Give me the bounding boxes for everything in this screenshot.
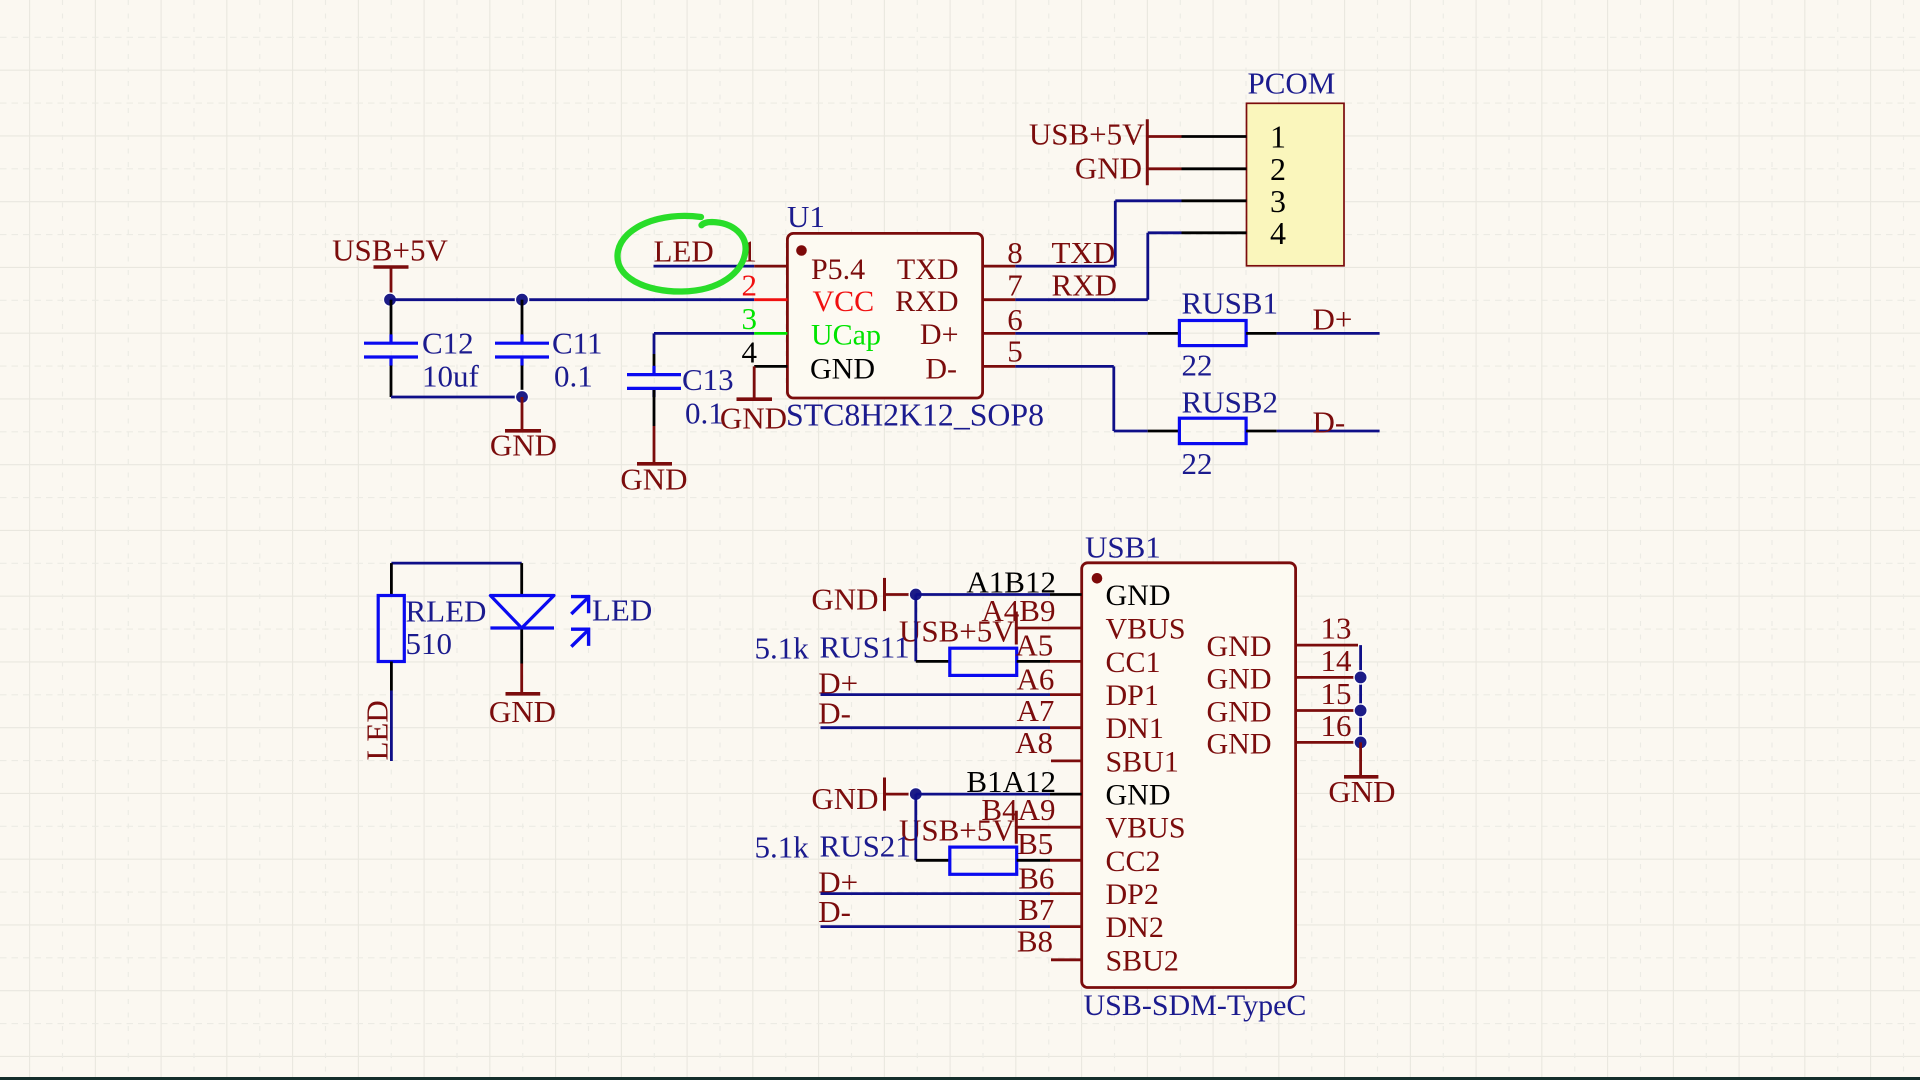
svg-text:7: 7 xyxy=(1007,267,1023,302)
pin A8 xyxy=(1015,725,1082,761)
U1 pin 2 xyxy=(742,267,788,302)
value 5.1k (RUS21) xyxy=(755,829,810,864)
pin B7 xyxy=(1018,892,1054,927)
svg-text:RUSB2: RUSB2 xyxy=(1182,385,1278,420)
svg-text:TXD: TXD xyxy=(897,253,959,286)
wire junction to RUS11 xyxy=(916,595,950,662)
junction below C11 xyxy=(515,390,528,403)
ground GND below pin 16 xyxy=(1328,742,1395,808)
power port GND (B group) xyxy=(811,778,915,816)
net label D+ (B group) xyxy=(818,865,858,900)
junction GND B group xyxy=(909,788,922,801)
svg-text:B8: B8 xyxy=(1017,924,1053,959)
svg-text:CC1: CC1 xyxy=(1106,646,1161,679)
U1 pin 5 xyxy=(983,334,1023,369)
wire VCC rail xyxy=(390,298,754,301)
net label RXD xyxy=(1052,267,1117,302)
junction VCC rail at C11 xyxy=(515,293,528,306)
svg-text:14: 14 xyxy=(1321,643,1353,678)
wire pins 13-16 bus xyxy=(1359,645,1362,742)
svg-text:D-: D- xyxy=(818,695,851,730)
svg-text:3: 3 xyxy=(1270,183,1286,219)
U1 pin 1 xyxy=(742,234,788,269)
pin name SBU2 (USB1 row 12) xyxy=(1106,944,1179,977)
value 10uf xyxy=(422,359,480,394)
svg-text:CC2: CC2 xyxy=(1106,845,1161,878)
svg-text:P5.4: P5.4 xyxy=(811,253,865,286)
svg-text:USB+5V: USB+5V xyxy=(332,233,448,268)
net label D- (B group) xyxy=(818,894,851,929)
svg-text:13: 13 xyxy=(1321,611,1352,646)
pin name VCC xyxy=(813,285,875,318)
svg-text:A6: A6 xyxy=(1017,661,1055,696)
power port GND (A group) xyxy=(811,578,915,616)
junction GND A group xyxy=(909,588,922,601)
ground GND below C11 xyxy=(490,397,557,463)
svg-text:RLED: RLED xyxy=(406,594,487,629)
resistor RUS11 xyxy=(950,648,1017,675)
wire RUS11 to pin A5 xyxy=(1017,660,1082,663)
U1 pin 8 xyxy=(983,235,1023,270)
wire junction to RUS21 xyxy=(916,794,950,860)
pin B1A12 xyxy=(966,764,1056,799)
svg-text:VCC: VCC xyxy=(813,285,875,318)
svg-text:LED: LED xyxy=(592,593,652,628)
svg-text:DP1: DP1 xyxy=(1106,679,1159,712)
svg-text:RUS21: RUS21 xyxy=(820,828,911,863)
USB1 pin 15 xyxy=(1296,676,1358,711)
pin name P5.4 xyxy=(811,253,865,286)
wire D+ to pin A6 xyxy=(821,693,1082,696)
svg-text:RXD: RXD xyxy=(895,285,958,318)
pin name TXD xyxy=(897,253,959,286)
wire GND to A1B12 pin xyxy=(916,593,1082,596)
svg-text:DP2: DP2 xyxy=(1106,878,1159,911)
svg-text:TXD: TXD xyxy=(1052,235,1116,270)
pin A4B9 wire xyxy=(981,593,1081,628)
power port USB+5V (B group) xyxy=(899,811,1016,848)
svg-text:LED: LED xyxy=(360,700,395,760)
U1 pin 6 xyxy=(983,302,1023,337)
svg-text:A5: A5 xyxy=(1015,627,1053,662)
resistor RUS21 xyxy=(950,847,1017,874)
svg-text:B5: B5 xyxy=(1017,826,1053,861)
pin name GND (right 14) xyxy=(1207,662,1272,695)
svg-text:D-: D- xyxy=(925,352,957,385)
svg-text:VBUS: VBUS xyxy=(1106,812,1186,845)
svg-text:D+: D+ xyxy=(920,318,959,351)
wire LED net to U1 pin 1 xyxy=(654,265,755,268)
wire RXD net xyxy=(1015,233,1181,300)
junction pin 15 xyxy=(1354,704,1367,717)
net label D+ (A group) xyxy=(818,666,858,701)
annotation green circle around LED xyxy=(617,216,745,292)
U1 pin 4 xyxy=(742,334,788,369)
svg-text:GND: GND xyxy=(1207,696,1272,729)
value 0.1 (C11) xyxy=(554,359,593,394)
svg-text:GND: GND xyxy=(1207,662,1272,695)
svg-text:USB-SDM-TypeC: USB-SDM-TypeC xyxy=(1084,989,1307,1022)
pin A7 xyxy=(1017,693,1055,728)
svg-text:GND: GND xyxy=(620,462,687,497)
pin B5 xyxy=(1017,826,1053,861)
junction VCC rail at C12 xyxy=(383,293,396,306)
wire RLED bottom (LED net) xyxy=(390,662,393,762)
U1 pin-1 mark xyxy=(796,245,807,256)
PCOM pin 2 xyxy=(1182,151,1287,187)
svg-text:DN1: DN1 xyxy=(1106,712,1164,745)
wire RLED top to LED anode xyxy=(391,563,521,594)
pin A1B12 xyxy=(966,565,1056,600)
PCOM pin 4 xyxy=(1182,215,1287,251)
svg-text:5.1k: 5.1k xyxy=(755,829,810,864)
pin name GND (USB1 row 7) xyxy=(1106,779,1171,812)
net label TXD xyxy=(1052,235,1116,270)
power port USB+5V (top left) xyxy=(332,233,448,300)
label RUSB1 xyxy=(1182,285,1278,320)
svg-text:DN2: DN2 xyxy=(1106,911,1164,944)
value 5.1k (RUS11) xyxy=(755,631,810,666)
wire C12 to C11 bottom xyxy=(391,396,522,399)
pin name DN1 (USB1 row 5) xyxy=(1106,712,1164,745)
svg-text:GND: GND xyxy=(1106,579,1171,612)
svg-text:GND: GND xyxy=(811,581,878,616)
pin A6 xyxy=(1017,661,1055,696)
wire GND to B1A12 pin xyxy=(916,793,1082,796)
svg-text:8: 8 xyxy=(1007,235,1023,270)
svg-text:15: 15 xyxy=(1321,676,1352,711)
svg-text:B6: B6 xyxy=(1018,860,1054,895)
pin name GND (right 16) xyxy=(1207,727,1272,760)
svg-text:GND: GND xyxy=(1106,779,1171,812)
USB1 pin 16 xyxy=(1296,708,1358,743)
pin B4A9 wire xyxy=(981,792,1081,827)
svg-text:D-: D- xyxy=(818,894,851,929)
svg-text:RUSB1: RUSB1 xyxy=(1182,285,1278,320)
pin name CC2 (USB1 row 9) xyxy=(1106,845,1161,878)
svg-text:GND: GND xyxy=(1207,727,1272,760)
resistor RLED xyxy=(378,596,404,662)
USB1 pin 14 xyxy=(1296,643,1358,678)
label C11 xyxy=(552,326,603,361)
wire RUSB2 to D- xyxy=(1246,430,1380,433)
svg-text:D-: D- xyxy=(1313,405,1346,440)
op-amp U1 body (STC8H2K12 SOP8) xyxy=(787,233,982,398)
PCOM pin 3 xyxy=(1182,183,1287,219)
label RLED xyxy=(406,594,487,629)
wire U1 pin 6 to RUSB1 xyxy=(1015,332,1179,335)
svg-text:D+: D+ xyxy=(1313,302,1353,337)
value 510 xyxy=(406,626,453,661)
pin name DN2 (USB1 row 11) xyxy=(1106,911,1164,944)
label LED (designator) xyxy=(592,593,652,628)
label C12 xyxy=(422,326,474,361)
svg-text:10uf: 10uf xyxy=(422,359,480,394)
svg-text:510: 510 xyxy=(406,626,453,661)
svg-text:B4A9: B4A9 xyxy=(981,792,1055,827)
wire UCap net (U1 pin 3 to C13) xyxy=(654,333,754,372)
svg-text:A4B9: A4B9 xyxy=(981,593,1055,628)
pin name GND (right 13) xyxy=(1207,630,1272,663)
resistor RUSB1 xyxy=(1179,321,1246,346)
svg-text:GND: GND xyxy=(490,428,557,463)
junction pin 14 xyxy=(1354,671,1367,684)
capacitor C11 xyxy=(495,300,549,397)
USB1 pin 13 xyxy=(1296,611,1358,646)
pin name DP2 (USB1 row 10) xyxy=(1106,878,1159,911)
svg-text:USB1: USB1 xyxy=(1085,530,1161,565)
svg-text:VBUS: VBUS xyxy=(1106,613,1186,646)
svg-text:GND: GND xyxy=(811,781,878,816)
wire D- to pin B7 xyxy=(821,925,1082,928)
value STC8H2K12_SOP8 xyxy=(786,398,1044,433)
label RUS11 xyxy=(820,630,910,665)
pin name VBUS (USB1 row 8) xyxy=(1106,812,1186,845)
svg-text:2: 2 xyxy=(1270,151,1286,187)
wire D+ to pin B6 xyxy=(821,892,1082,895)
pin name CC1 (USB1 row 3) xyxy=(1106,646,1161,679)
value USB-SDM-TypeC xyxy=(1084,989,1307,1022)
ground GND below C13 xyxy=(620,426,687,497)
U1 pin 3 xyxy=(742,301,788,336)
wire RUSB1 to D+ xyxy=(1246,332,1380,335)
svg-text:U1: U1 xyxy=(787,199,825,234)
power port GND (PCOM pin 2) xyxy=(1075,150,1182,185)
pin name GND (USB1 row 1) xyxy=(1106,579,1171,612)
svg-text:RUS11: RUS11 xyxy=(820,630,910,665)
capacitor C13 xyxy=(627,366,681,397)
value 22 (RUSB1) xyxy=(1182,348,1213,383)
svg-text:2: 2 xyxy=(742,267,758,302)
wire TXD net xyxy=(1015,201,1181,266)
svg-text:5: 5 xyxy=(1007,334,1023,369)
pin A5 xyxy=(1015,627,1053,662)
svg-text:C11: C11 xyxy=(552,326,603,361)
label C13 xyxy=(682,362,734,397)
svg-text:16: 16 xyxy=(1321,708,1352,743)
net label LED (vertical) xyxy=(360,700,395,760)
pin B6 xyxy=(1018,860,1054,895)
USB1 pin-1 mark xyxy=(1092,573,1103,584)
window bottom edge bar xyxy=(0,1077,1920,1080)
pin name VBUS (USB1 row 2) xyxy=(1106,613,1186,646)
value 0.1 (C13) xyxy=(685,396,724,431)
svg-text:0.1: 0.1 xyxy=(554,359,593,394)
svg-text:A8: A8 xyxy=(1015,725,1053,760)
svg-text:6: 6 xyxy=(1007,302,1023,337)
wire U1 pin 5 to RUSB2 xyxy=(1015,366,1179,431)
pin name GND (right 15) xyxy=(1207,696,1272,729)
svg-text:LED: LED xyxy=(654,234,714,269)
svg-text:3: 3 xyxy=(742,301,758,336)
svg-text:0.1: 0.1 xyxy=(685,396,724,431)
svg-text:RXD: RXD xyxy=(1052,267,1117,302)
net label LED at U1 pin 1 xyxy=(654,234,714,269)
wire RUS21 to pin B5 xyxy=(1017,859,1082,862)
svg-text:22: 22 xyxy=(1182,446,1213,481)
svg-text:GND: GND xyxy=(489,694,556,729)
PCOM pin 1 xyxy=(1182,119,1287,155)
svg-text:PCOM: PCOM xyxy=(1248,66,1336,101)
svg-text:GND: GND xyxy=(1207,630,1272,663)
LED arrows xyxy=(571,595,590,647)
net label D- (A group) xyxy=(818,695,851,730)
svg-text:1: 1 xyxy=(1270,119,1286,155)
connector USB1 body xyxy=(1082,563,1296,988)
svg-text:B7: B7 xyxy=(1018,892,1054,927)
pin name GND (U1) xyxy=(810,352,875,385)
resistor RUSB2 xyxy=(1179,418,1246,443)
svg-text:22: 22 xyxy=(1182,348,1213,383)
value 22 (RUSB2) xyxy=(1182,446,1213,481)
ground GND at U1 pin 4 xyxy=(720,366,787,435)
pin name D- xyxy=(925,352,957,385)
svg-text:C12: C12 xyxy=(422,326,474,361)
ground GND below LED xyxy=(489,664,556,730)
label RUSB2 xyxy=(1182,385,1278,420)
svg-text:UCap: UCap xyxy=(811,319,881,352)
svg-text:GND: GND xyxy=(720,401,787,436)
pin name SBU1 (USB1 row 6) xyxy=(1106,745,1179,778)
net label D- xyxy=(1313,405,1346,440)
pin name RXD xyxy=(895,285,958,318)
power port USB+5V (PCOM pin 1) xyxy=(1029,117,1182,186)
svg-text:STC8H2K12_SOP8: STC8H2K12_SOP8 xyxy=(786,398,1044,433)
svg-text:5.1k: 5.1k xyxy=(755,631,810,666)
svg-text:GND: GND xyxy=(810,352,875,385)
pin B8 xyxy=(1017,924,1082,960)
label U1 xyxy=(787,199,825,234)
pin name D+ xyxy=(920,318,959,351)
svg-text:SBU2: SBU2 xyxy=(1106,944,1179,977)
pin name UCap xyxy=(811,319,881,352)
label USB1 xyxy=(1085,530,1161,565)
svg-text:USB+5V: USB+5V xyxy=(1029,117,1145,152)
power port USB+5V (A group) xyxy=(899,612,1016,649)
svg-text:4: 4 xyxy=(742,334,758,369)
svg-text:A7: A7 xyxy=(1017,693,1055,728)
wire C13 to ground xyxy=(653,390,656,426)
svg-text:C13: C13 xyxy=(682,362,734,397)
connector PCOM body xyxy=(1247,103,1345,265)
capacitor C12 xyxy=(364,300,418,397)
U1 pin 7 xyxy=(983,267,1023,302)
svg-text:4: 4 xyxy=(1270,215,1286,251)
label RUS21 xyxy=(820,828,911,863)
junction pin 16 xyxy=(1354,736,1367,749)
svg-text:SBU1: SBU1 xyxy=(1106,745,1179,778)
wire D- to pin A7 xyxy=(821,726,1082,729)
pin name DP1 (USB1 row 4) xyxy=(1106,679,1159,712)
svg-text:GND: GND xyxy=(1075,150,1142,185)
net label D+ xyxy=(1313,302,1353,337)
svg-text:GND: GND xyxy=(1328,774,1395,809)
label PCOM xyxy=(1248,66,1336,101)
diode LED symbol xyxy=(490,563,554,663)
